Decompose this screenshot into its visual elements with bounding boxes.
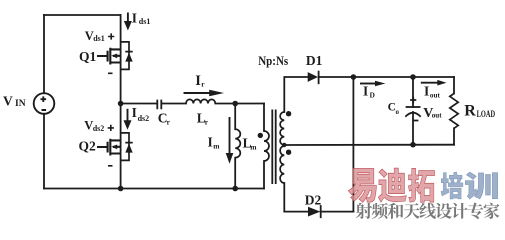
label D1 bbox=[306, 53, 323, 68]
wire Lm node to primary bbox=[235, 103, 264, 105]
current arrow Im bbox=[208, 117, 234, 164]
svg-text:m: m bbox=[250, 142, 257, 151]
svg-text:o: o bbox=[396, 108, 400, 116]
wire Cr to Lr bbox=[162, 103, 186, 105]
svg-text:I: I bbox=[208, 135, 213, 150]
wire left vertical lower (Vin bottom lead) bbox=[43, 114, 45, 189]
transistor Q2 (MOSFET) bbox=[97, 139, 121, 156]
svg-text:out: out bbox=[430, 91, 441, 99]
label Q2 bbox=[79, 139, 97, 154]
diode D1 bbox=[308, 72, 318, 82]
wire Co branch bottom bbox=[412, 112, 414, 145]
node junction Lm top bbox=[232, 101, 238, 107]
current arrow Iout bbox=[421, 80, 447, 100]
wire Lr to Lm node bbox=[215, 103, 235, 105]
node secondary center tap bbox=[282, 143, 286, 147]
label D2 bbox=[305, 193, 322, 208]
wire main half-bridge rail bbox=[120, 15, 122, 189]
label Np:Ns bbox=[258, 53, 288, 68]
inductor Lr bbox=[186, 99, 215, 103]
svg-text:I: I bbox=[132, 11, 137, 26]
transformer primary phase dot bbox=[258, 133, 263, 138]
svg-text:out: out bbox=[432, 112, 443, 120]
wire Lm bottom lead bbox=[234, 158, 236, 189]
wire output bottom rail (center tap to load) bbox=[284, 144, 454, 146]
label Q1 bbox=[79, 49, 97, 64]
wire top rail left loop bbox=[44, 14, 121, 16]
wire D2 return vertical (cathode rail) bbox=[352, 77, 354, 212]
svg-text:R: R bbox=[464, 102, 476, 119]
current arrow Ids1 bbox=[124, 11, 150, 31]
svg-text:I: I bbox=[363, 84, 368, 99]
label Vds1 + - bbox=[85, 29, 115, 74]
label Lr bbox=[197, 111, 209, 127]
transformer primary winding bbox=[264, 131, 269, 161]
voltage source VIN bbox=[34, 93, 55, 114]
wire resonant branch horizontal (node to Cr) bbox=[121, 103, 157, 105]
node junction D2 rail to top rail bbox=[351, 74, 357, 80]
transformer secondary phase dot upper bbox=[286, 111, 291, 116]
label Vds2 + - bbox=[84, 119, 114, 166]
svg-text:ds2: ds2 bbox=[138, 114, 150, 123]
svg-text:I: I bbox=[424, 84, 429, 99]
node junction Co branch top bbox=[410, 74, 416, 80]
current arrow Ir bbox=[184, 73, 225, 97]
diode Q2 body diode bbox=[121, 133, 133, 161]
label Rload bbox=[464, 102, 495, 119]
transistor Q1 body arrow bbox=[111, 54, 117, 59]
transistor Q2 body arrow bbox=[111, 145, 117, 150]
svg-text:D2: D2 bbox=[305, 193, 322, 208]
wire primary bottom lead bbox=[263, 161, 265, 189]
wire primary top lead bbox=[263, 104, 265, 132]
svg-text:ds2: ds2 bbox=[93, 124, 105, 133]
wire bottom rail bbox=[44, 188, 264, 190]
svg-text:V: V bbox=[3, 94, 13, 109]
svg-text:r: r bbox=[167, 117, 171, 126]
watermark slogan gray text bbox=[356, 203, 500, 219]
transformer core bbox=[272, 110, 275, 185]
label VIN bbox=[3, 94, 26, 110]
inductor Lm bbox=[235, 129, 240, 158]
diode Q1 body diode bbox=[121, 42, 133, 70]
node junction Co branch bottom bbox=[410, 142, 416, 148]
wire Rload branch bottom bbox=[453, 128, 455, 144]
current arrow Ids2 bbox=[124, 105, 150, 130]
wire left vertical upper (Vin top lead) bbox=[43, 15, 45, 93]
svg-text:LOAD: LOAD bbox=[477, 109, 496, 119]
wire D1 cathode to output top rail bbox=[319, 76, 454, 78]
node junction Q2 source to bottom rail bbox=[118, 186, 124, 192]
svg-text:D: D bbox=[370, 91, 376, 100]
wire Rload branch top bbox=[453, 77, 455, 94]
svg-text:I: I bbox=[132, 105, 137, 120]
wire Lm top lead bbox=[234, 104, 236, 130]
capacitor Cr bbox=[157, 100, 161, 110]
resistor Rload bbox=[450, 94, 458, 129]
transformer secondary phase dot lower bbox=[286, 150, 291, 155]
svg-text:Q1: Q1 bbox=[79, 49, 97, 64]
wire secondary top lead to D1 bbox=[284, 77, 307, 112]
watermark logo text red/blue bbox=[348, 168, 497, 202]
wire Co branch top bbox=[412, 77, 414, 107]
transformer secondary winding upper bbox=[280, 112, 284, 145]
wire secondary bottom lead to D2 bbox=[284, 183, 308, 212]
label Cr bbox=[158, 111, 171, 127]
transformer secondary winding lower bbox=[280, 146, 284, 183]
diode D2 bbox=[308, 207, 320, 217]
svg-text:r: r bbox=[205, 117, 209, 126]
svg-text:r: r bbox=[201, 79, 205, 88]
node junction at half-bridge midpoint bbox=[118, 101, 124, 107]
wire D2 cathode to return vertical bbox=[321, 211, 354, 213]
svg-text:Np:Ns: Np:Ns bbox=[258, 53, 288, 68]
capacitor Co (polarized) bbox=[405, 97, 420, 121]
current arrow ID bbox=[360, 81, 385, 100]
transistor Q1 (MOSFET) bbox=[97, 48, 121, 65]
svg-text:ds1: ds1 bbox=[93, 34, 105, 43]
svg-text:ds1: ds1 bbox=[139, 17, 151, 26]
svg-text:Q2: Q2 bbox=[79, 139, 97, 154]
svg-text:m: m bbox=[213, 141, 220, 150]
label Lm bbox=[243, 136, 258, 152]
svg-text:IN: IN bbox=[15, 99, 26, 109]
label Co bbox=[388, 102, 400, 116]
svg-text:D1: D1 bbox=[306, 53, 323, 68]
node junction Lm bottom bbox=[232, 186, 238, 192]
label Vout bbox=[423, 106, 442, 121]
